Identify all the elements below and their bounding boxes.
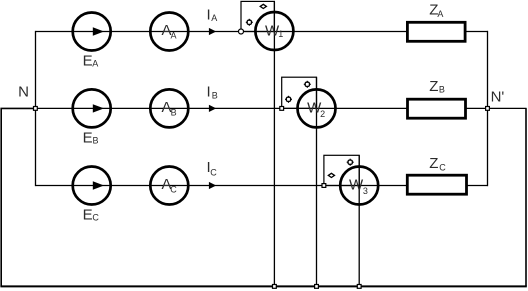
W2 terminal	[280, 107, 284, 111]
W3 meter circle	[340, 167, 378, 205]
label EB	[83, 130, 99, 147]
W2 coil box	[282, 77, 317, 108]
svg-text:B: B	[171, 107, 177, 117]
svg-text:C: C	[92, 213, 99, 223]
wire phase B row	[35, 107, 407, 109]
wattmeter W3	[322, 155, 378, 204]
source EC	[73, 167, 111, 205]
label W2	[307, 99, 325, 118]
label ZB	[429, 78, 445, 95]
source EB	[73, 89, 111, 127]
wire phase A row	[36, 31, 408, 33]
junction W1 bottom	[273, 285, 277, 289]
label EA	[83, 53, 99, 70]
svg-text:E: E	[83, 130, 93, 147]
node N	[34, 107, 38, 111]
svg-text:A: A	[437, 9, 443, 19]
label ZA	[429, 1, 443, 19]
svg-text:Z: Z	[429, 155, 438, 172]
impedance ZC	[407, 175, 466, 194]
W1 terminal	[239, 29, 244, 34]
svg-text:N': N'	[491, 88, 505, 105]
label AA	[162, 22, 177, 40]
wire phase A to right bus	[465, 31, 488, 33]
wire bottom bus	[0, 285, 526, 287]
wire neutral return left	[1, 108, 35, 286]
W1 coil box	[241, 1, 274, 31]
svg-text:N: N	[18, 83, 29, 100]
W2 polarity mark voltage	[304, 81, 311, 88]
wire W3 voltage lead	[358, 155, 360, 286]
svg-text:B: B	[93, 136, 99, 146]
svg-text:E: E	[83, 207, 93, 224]
label EC	[83, 207, 100, 224]
wire phase C row	[36, 185, 408, 187]
wire right return	[525, 108, 527, 286]
label W3	[349, 176, 368, 196]
W2 polarity mark current	[285, 96, 292, 103]
label IA	[207, 6, 218, 23]
ammeter AC	[150, 167, 188, 205]
current arrow IB	[209, 105, 216, 112]
W3 polarity mark current	[328, 173, 334, 177]
current arrow IC	[209, 182, 216, 189]
wattmeter W2	[280, 77, 336, 127]
wire right load bus	[487, 31, 489, 186]
svg-text:W: W	[349, 176, 364, 193]
label AC	[162, 176, 178, 194]
junction W3 bottom	[357, 285, 361, 289]
svg-text:I: I	[207, 84, 211, 101]
wire phase B to node N'	[466, 107, 488, 109]
svg-text:A: A	[92, 59, 98, 69]
W1 polarity mark current	[246, 19, 253, 26]
svg-text:1: 1	[278, 29, 283, 39]
svg-text:2: 2	[320, 109, 325, 119]
svg-text:3: 3	[363, 186, 368, 196]
svg-text:C: C	[439, 163, 446, 173]
W1 meter circle	[255, 12, 293, 50]
svg-text:I: I	[207, 6, 211, 23]
svg-text:Z: Z	[429, 78, 438, 95]
svg-text:A: A	[211, 13, 217, 23]
label IB	[207, 84, 218, 101]
ammeter AB	[150, 89, 188, 127]
wire node N' to right return	[488, 107, 527, 109]
W2 meter circle	[298, 89, 336, 127]
W3 polarity mark voltage	[347, 159, 354, 166]
junction W2 bottom	[315, 285, 319, 289]
wire W1 voltage lead	[273, 1, 275, 286]
svg-text:B: B	[439, 85, 445, 95]
W1 polarity mark voltage	[260, 4, 266, 8]
wire W2 voltage lead	[316, 77, 318, 286]
svg-text:C: C	[170, 184, 177, 194]
node N'	[486, 107, 490, 111]
ammeter AA	[150, 13, 188, 51]
svg-text:E: E	[83, 53, 93, 70]
wire left source bus	[35, 31, 37, 186]
svg-text:A: A	[171, 30, 177, 40]
wattmeter W1	[239, 1, 294, 50]
wire phase C to right bus	[467, 185, 489, 187]
label W1	[265, 22, 283, 39]
label ZC	[429, 155, 446, 172]
W3 coil box	[324, 155, 359, 185]
W3 terminal	[322, 184, 326, 188]
impedance ZA	[407, 22, 465, 41]
source EA	[73, 13, 111, 51]
svg-text:C: C	[210, 167, 217, 177]
svg-text:B: B	[212, 91, 218, 101]
label IC	[207, 159, 218, 178]
impedance ZB	[408, 99, 466, 118]
current arrow IA	[209, 28, 216, 35]
label AB	[162, 99, 177, 117]
